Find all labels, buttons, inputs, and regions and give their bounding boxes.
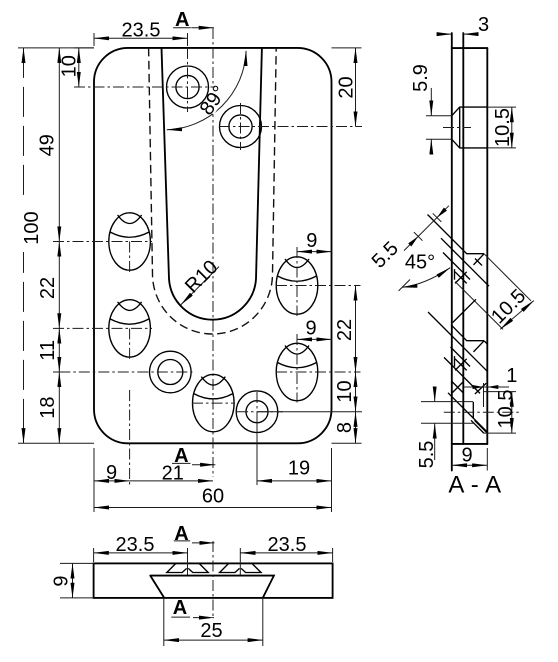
- section label A bottom-view lower: [171, 597, 214, 619]
- oval R2 centerlines: [276, 334, 361, 403]
- dim 23.5 bottom right: [240, 534, 332, 562]
- svg-text:8: 8: [334, 422, 356, 433]
- hole C4 centerlines: [237, 392, 283, 432]
- side top hole countersink: [452, 107, 488, 148]
- mid 45deg hole 2 short LC: [444, 357, 480, 393]
- dim 10.5 right top: [487, 107, 516, 148]
- bottom hole transition vertical: [472, 402, 474, 419]
- angle dim 89: [167, 51, 246, 130]
- hole C4 extension elbow: [257, 412, 362, 485]
- U slot solid edge: [162, 48, 262, 320]
- mid 45deg ext LD: [484, 254, 531, 301]
- dim 9 right lower: [297, 318, 332, 343]
- svg-text:9: 9: [106, 462, 117, 484]
- svg-text:23.5: 23.5: [116, 534, 155, 556]
- dim chain 22/10/8 right: [332, 286, 362, 444]
- dim 1: [464, 365, 517, 407]
- boss trapezoid: [150, 576, 274, 598]
- dim 9 side bottom: [452, 445, 488, 471]
- section line A-A vertical: [212, 28, 214, 477]
- mid 45deg ext LC: [455, 282, 503, 330]
- svg-text:A - A: A - A: [448, 472, 501, 499]
- svg-text:19: 19: [288, 458, 310, 480]
- hole H1 centerlines: [74, 48, 215, 112]
- svg-text:10.5: 10.5: [487, 285, 530, 328]
- dim 10.5 right bottom: [484, 390, 518, 434]
- svg-text:10: 10: [334, 380, 356, 402]
- hole C3 inner: [158, 360, 183, 385]
- oval hole R1: [276, 257, 318, 314]
- oval hole O2: [109, 300, 151, 357]
- plate outline: [94, 48, 332, 443]
- side view outline: [452, 33, 488, 471]
- mid 45deg hole 2 upper wall: [451, 325, 484, 341]
- dim 5.9: [410, 64, 452, 152]
- hole H2 centerlines: [219, 103, 362, 150]
- svg-text:3: 3: [478, 14, 489, 36]
- svg-text:9: 9: [461, 445, 472, 467]
- mid 45deg hole 2 lower wall: [451, 347, 471, 367]
- mid 45deg hole 2 countersink edge: [474, 341, 485, 352]
- svg-text:20: 20: [336, 76, 358, 98]
- dim chain 49/22/11/18 left: [18, 48, 94, 443]
- funnel hole F1: [167, 563, 208, 572]
- svg-text:11: 11: [37, 340, 59, 361]
- section label A bottom: [172, 445, 215, 467]
- dim 23.5 top: [94, 20, 188, 47]
- funnel F1 centerline: [187, 548, 189, 575]
- dim 9 right upper: [297, 230, 332, 255]
- bottom view outline: [94, 563, 333, 598]
- mid 45deg hole upper wall: [428, 215, 485, 254]
- svg-text:22: 22: [334, 319, 356, 341]
- hole C3 outer: [150, 351, 192, 393]
- funnel F2 centerline: [239, 548, 241, 575]
- svg-text:1: 1: [506, 365, 517, 387]
- mid 45deg hole shoulder X: [455, 269, 467, 283]
- svg-text:10.5: 10.5: [495, 390, 517, 429]
- section label A top: [173, 9, 214, 31]
- svg-text:100: 100: [21, 211, 43, 244]
- dim 5.5 diagonal: [368, 206, 449, 273]
- bottom hole centerline: [444, 411, 520, 413]
- svg-text:89°: 89°: [196, 82, 231, 119]
- hole H1 outer: [167, 66, 209, 108]
- radius leader R10: [181, 256, 223, 305]
- svg-text:45°: 45°: [405, 252, 435, 274]
- mid 45deg hole countersink edge: [474, 254, 485, 265]
- side top hole centerline: [443, 127, 471, 129]
- mid 45deg hole 2 short LD: [484, 341, 487, 344]
- svg-text:49: 49: [37, 134, 59, 156]
- hole H2 inner: [229, 115, 252, 138]
- oval O2 centerlines: [53, 328, 152, 359]
- svg-text:18: 18: [37, 396, 59, 418]
- mid 45deg hole 2 anti diagonal: [453, 299, 476, 322]
- svg-text:23.5: 23.5: [268, 534, 307, 556]
- svg-text:5.9: 5.9: [410, 64, 432, 92]
- oval O5 centerline: [192, 402, 235, 404]
- svg-text:A: A: [173, 597, 187, 619]
- bottom hole double diagonal: [471, 420, 487, 433]
- dim 10 left: [59, 48, 95, 87]
- svg-text:9: 9: [305, 318, 316, 340]
- svg-text:25: 25: [200, 620, 222, 642]
- mid 45deg hole inner edge: [475, 259, 482, 266]
- svg-text:9: 9: [51, 575, 73, 586]
- dim 9 bottom view: [51, 563, 94, 598]
- svg-text:R10: R10: [181, 256, 223, 298]
- U slot hidden edge: [149, 48, 277, 334]
- svg-text:23.5: 23.5: [122, 20, 161, 42]
- hole H1 inner: [176, 75, 199, 98]
- oval R1 centerlines: [276, 247, 361, 316]
- oval hole O5: [193, 374, 235, 431]
- dim 9/21 bottom: [94, 390, 213, 512]
- bottom hole diagonal wall: [448, 393, 487, 432]
- dim 3 top: [442, 14, 490, 36]
- section label A bottom-view top: [174, 523, 215, 545]
- angle dim 45: [399, 252, 451, 291]
- svg-text:10.5: 10.5: [492, 108, 514, 147]
- hole C4 inner: [246, 401, 268, 423]
- svg-text:10: 10: [59, 55, 81, 77]
- dim 25: [164, 598, 263, 646]
- svg-text:5.5: 5.5: [368, 237, 403, 272]
- dim 5.5 bottom left: [416, 390, 473, 468]
- hole C3 centerline: [59, 371, 192, 373]
- svg-text:9: 9: [306, 230, 317, 252]
- dim 19 bottom: [257, 458, 332, 481]
- hole C4 outer: [236, 391, 278, 433]
- dim 23.5 bottom left: [94, 534, 188, 562]
- dim 10.5 diagonal: [487, 285, 534, 329]
- svg-text:5.5: 5.5: [416, 441, 438, 469]
- mid 45deg hole 2 axis: [428, 312, 487, 371]
- oval O1 centerlines: [53, 242, 152, 273]
- bottom hole small X: [452, 382, 464, 394]
- mid 45deg hole lower wall: [443, 253, 470, 280]
- dim 20 right: [332, 48, 362, 127]
- mid 45deg hole axis: [441, 238, 489, 286]
- svg-text:A: A: [174, 523, 188, 545]
- funnel hole F2: [220, 563, 261, 572]
- oval hole R2: [276, 343, 318, 400]
- bottom view section centerline: [212, 541, 214, 619]
- svg-text:22: 22: [37, 277, 59, 299]
- svg-text:60: 60: [202, 486, 224, 508]
- dim 100 left: [21, 48, 43, 443]
- bottom hole anti diagonal: [475, 383, 486, 394]
- oval hole O1: [109, 213, 151, 270]
- dim 60 bottom: [94, 448, 332, 512]
- hole H2 outer: [220, 106, 262, 148]
- mid 45deg hole 2 shoulder X: [455, 356, 467, 370]
